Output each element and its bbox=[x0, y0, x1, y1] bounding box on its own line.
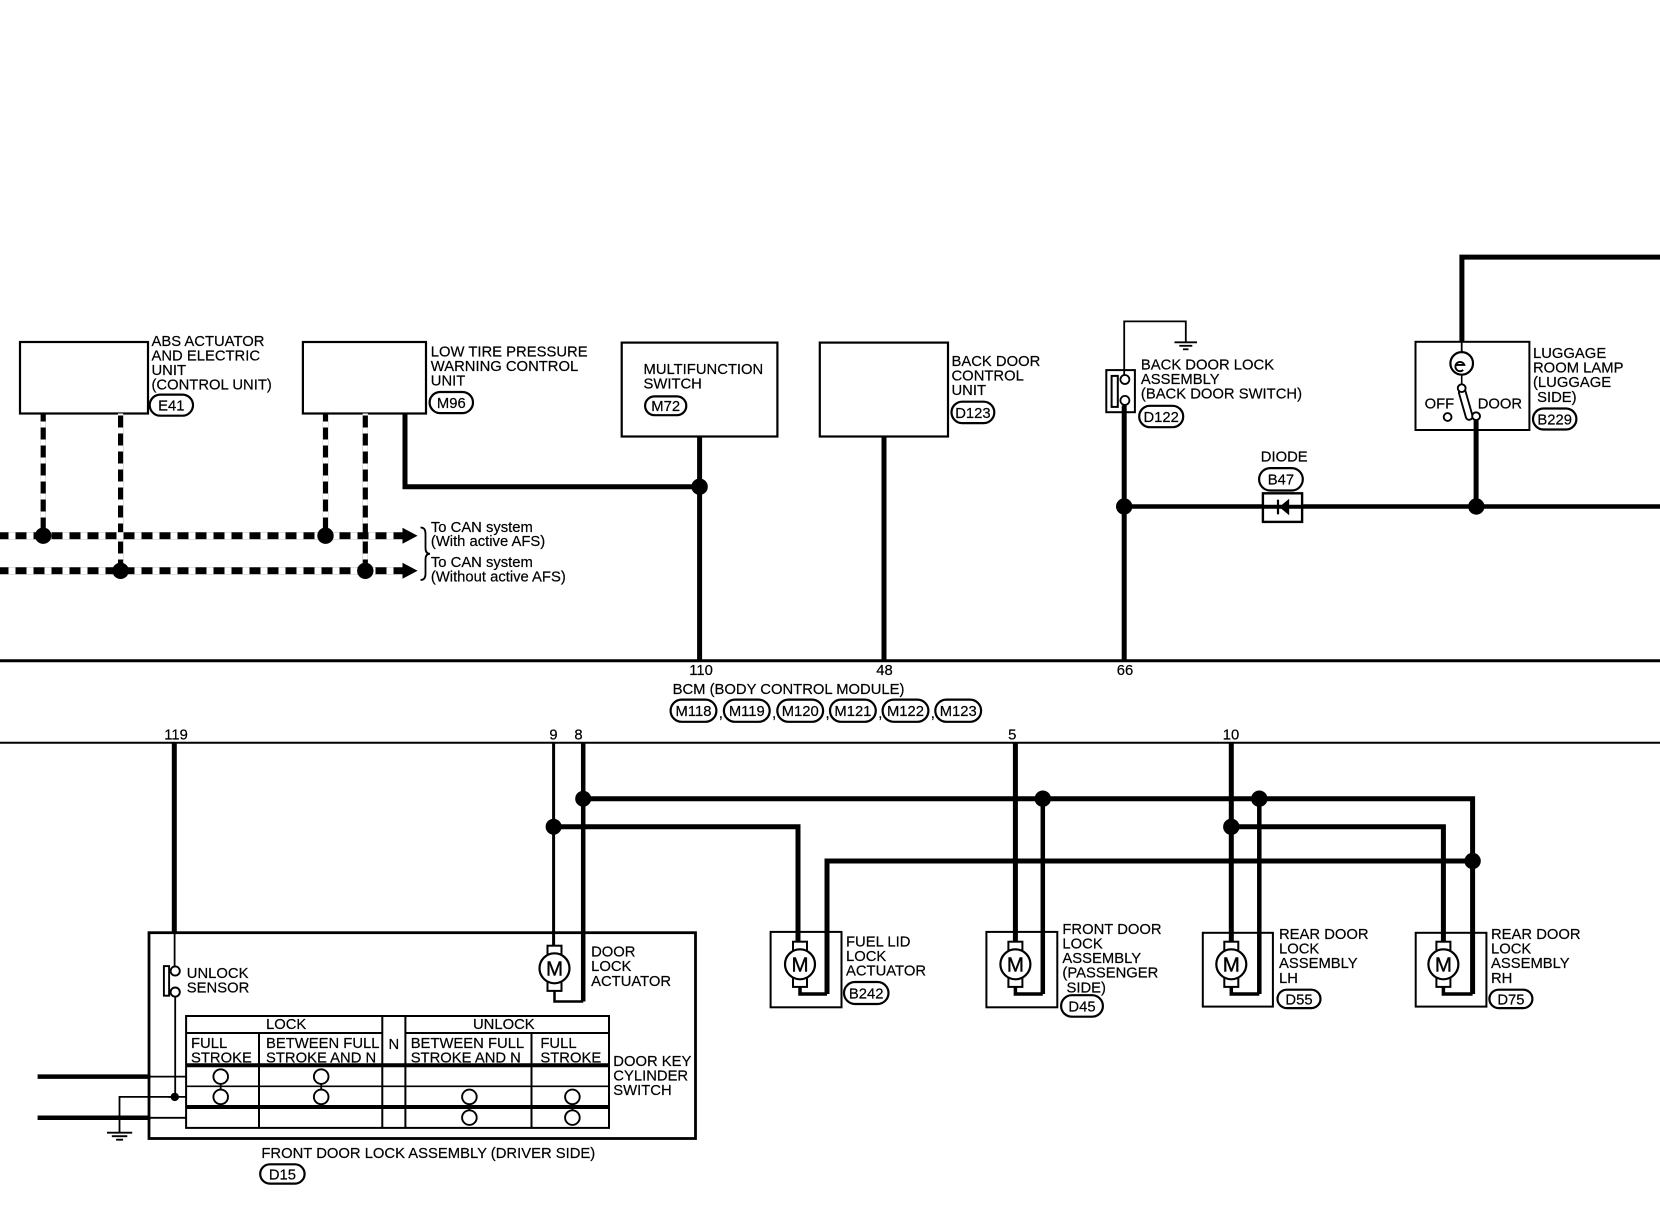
switch contacts lock between-full-stroke-and-N bbox=[314, 1069, 329, 1104]
svg-text:8: 8 bbox=[574, 728, 582, 744]
svg-text:M96: M96 bbox=[437, 396, 466, 412]
comma separator bbox=[878, 706, 882, 722]
connector oval E41 bbox=[150, 395, 193, 416]
motor B242 (fuel lid lock actuator) bbox=[785, 942, 815, 987]
wire BCM pin 119 to unlock sensor bbox=[172, 742, 177, 933]
svg-text:FULL: FULL bbox=[540, 1036, 576, 1052]
svg-text:ASSEMBLY: ASSEMBLY bbox=[1062, 951, 1141, 967]
motor door lock actuator (driver) bbox=[540, 946, 570, 991]
label D75 (rear door lock assembly RH) bbox=[1491, 927, 1581, 987]
svg-text:M: M bbox=[1007, 954, 1024, 977]
wire pin119 to unlock sensor (inside box) bbox=[174, 933, 176, 967]
wire M72 to BCM pin 110 bbox=[697, 437, 702, 661]
svg-text:WARNING CONTROL: WARNING CONTROL bbox=[431, 359, 578, 375]
svg-text:M123: M123 bbox=[940, 704, 977, 720]
svg-text:SIDE): SIDE) bbox=[1537, 390, 1577, 406]
junction E41 pin2 / CAN bus 2 bbox=[112, 563, 128, 579]
junction return bus / lock bus elbow bbox=[1464, 853, 1480, 869]
header label UNLOCK bbox=[473, 1017, 535, 1033]
svg-text:110: 110 bbox=[689, 663, 713, 679]
motor D75 (rear door lock assembly RH) bbox=[1428, 942, 1458, 987]
wire unlock row (external) bbox=[38, 1116, 151, 1121]
svg-text:LOCK: LOCK bbox=[1062, 937, 1102, 953]
BCM upper bus line bbox=[0, 659, 1660, 662]
svg-text:FRONT DOOR LOCK ASSEMBLY (DRIV: FRONT DOOR LOCK ASSEMBLY (DRIVER SIDE) bbox=[261, 1146, 595, 1162]
svg-text:CONTROL: CONTROL bbox=[952, 369, 1024, 385]
CAN bus line 1 (with active AFS) bbox=[0, 532, 403, 539]
svg-text:M119: M119 bbox=[729, 704, 765, 720]
junction lock bus / D55 branch bbox=[1251, 791, 1267, 807]
label BCM (BODY CONTROL MODULE) bbox=[673, 682, 905, 698]
svg-text:M72: M72 bbox=[651, 399, 680, 415]
wire common junction to ground bbox=[120, 1097, 175, 1133]
wire junction66 to diode bbox=[1124, 504, 1263, 509]
connector oval M72 bbox=[645, 396, 686, 415]
node label: To CAN system (With active AFS) bbox=[431, 520, 545, 550]
svg-text:OFF: OFF bbox=[1425, 397, 1455, 413]
connector oval M123 bbox=[935, 700, 981, 722]
connector oval D15 bbox=[260, 1164, 304, 1183]
lamp switch lever bbox=[1458, 388, 1473, 420]
svg-text:LOCK: LOCK bbox=[591, 959, 631, 975]
label M96: LOW TIRE PRESSURE WARNING CONTROL UNIT bbox=[431, 345, 588, 390]
svg-text:UNIT: UNIT bbox=[152, 363, 187, 379]
lamp switch OFF contact bbox=[1444, 413, 1452, 421]
motor D45 (front door lock assembly passenger side) bbox=[1000, 942, 1030, 987]
actuator box B242 (fuel lid lock actuator) bbox=[771, 932, 842, 1007]
junction M96 pin2 / CAN bus 2 bbox=[357, 563, 373, 579]
junction lock bus / D45 branch bbox=[1035, 791, 1051, 807]
connector oval D45 bbox=[1061, 995, 1103, 1017]
svg-text:66: 66 bbox=[1117, 663, 1133, 679]
wire diode to lamp junction bbox=[1302, 504, 1476, 509]
connector oval M120 bbox=[777, 700, 823, 722]
wire M96 pin2 (CAN-L shielded) bbox=[363, 414, 368, 569]
control unit box D123 (back door control unit) bbox=[820, 343, 948, 437]
svg-text:,: , bbox=[826, 706, 830, 722]
svg-text:(With active AFS): (With active AFS) bbox=[431, 534, 545, 550]
pin number 119 bbox=[164, 728, 188, 744]
svg-text:48: 48 bbox=[876, 663, 892, 679]
control unit box M96 (low tire pressure warning control unit) bbox=[303, 342, 426, 414]
switch contacts unlock full-stroke bbox=[565, 1090, 580, 1125]
switch contacts lock full-stroke bbox=[213, 1069, 228, 1104]
svg-text:REAR DOOR: REAR DOOR bbox=[1491, 927, 1581, 943]
wire D123 to BCM pin 48 bbox=[882, 437, 887, 661]
svg-text:UNLOCK: UNLOCK bbox=[187, 966, 249, 982]
pin number 66 bbox=[1117, 663, 1133, 679]
label DOOR LOCK ACTUATOR bbox=[591, 945, 671, 990]
wire BCM pin 10 to D55 motor bbox=[1229, 742, 1234, 944]
svg-text:STROKE AND N: STROKE AND N bbox=[411, 1051, 521, 1067]
motor D45 (front door lock assembly passenger side) loop wire bbox=[1015, 988, 1042, 995]
svg-text:D75: D75 bbox=[1497, 992, 1524, 1008]
svg-text:FRONT DOOR: FRONT DOOR bbox=[1062, 922, 1161, 938]
svg-text:M: M bbox=[1435, 954, 1452, 977]
svg-text:SENSOR: SENSOR bbox=[187, 980, 250, 996]
wire junction to right edge bbox=[1476, 504, 1660, 509]
svg-text:DOOR: DOOR bbox=[1478, 397, 1522, 413]
switch D122 contact bottom bbox=[1120, 396, 1129, 405]
svg-text:(Without active AFS): (Without active AFS) bbox=[431, 570, 566, 586]
label DOOR bbox=[1478, 397, 1522, 413]
svg-text:STROKE: STROKE bbox=[540, 1051, 601, 1067]
label B229: LUGGAGE ROOM LAMP (LUGGAGE SIDE) bbox=[1533, 346, 1624, 406]
svg-text:REAR DOOR: REAR DOOR bbox=[1279, 927, 1369, 943]
header BETWEEN FULL STROKE AND N (lock) bbox=[266, 1036, 379, 1067]
connector oval D123 bbox=[952, 402, 995, 423]
svg-text:LOCK: LOCK bbox=[846, 949, 886, 965]
svg-text:D45: D45 bbox=[1068, 999, 1095, 1015]
wire E41 pin1 (CAN-H shielded) bbox=[41, 414, 46, 534]
svg-text:M121: M121 bbox=[834, 704, 871, 720]
svg-text:(CONTROL UNIT): (CONTROL UNIT) bbox=[152, 378, 272, 394]
svg-text:LOCK: LOCK bbox=[1279, 942, 1319, 958]
header label LOCK bbox=[266, 1017, 306, 1033]
svg-text:AND ELECTRIC: AND ELECTRIC bbox=[152, 348, 261, 364]
ground symbol (back door switch) bbox=[1175, 342, 1198, 349]
pin number 10 bbox=[1223, 728, 1239, 744]
svg-text:MULTIFUNCTION: MULTIFUNCTION bbox=[644, 362, 764, 378]
wire D122 to BCM pin 66 bbox=[1122, 406, 1127, 661]
junction M96-wire / M72-wire bbox=[691, 479, 707, 495]
label FRONT DOOR LOCK ASSEMBLY (DRIVER SIDE) bbox=[261, 1146, 595, 1162]
wire E41 pin2 (CAN-L shielded) bbox=[118, 414, 123, 569]
junction pin10 wire / unlock bus B bbox=[1223, 819, 1239, 835]
junction lamp wire / diode wire bbox=[1468, 498, 1484, 514]
connector oval M118 bbox=[671, 700, 717, 722]
wire lock bus to D55 loop bbox=[1257, 799, 1262, 994]
lamp switch DOOR contact bbox=[1472, 412, 1480, 420]
label DIODE bbox=[1261, 450, 1308, 466]
connector oval M121 bbox=[830, 700, 876, 722]
label D123: BACK DOOR CONTROL UNIT bbox=[952, 354, 1041, 399]
wire M96 to BCM pin 110 bbox=[405, 414, 700, 487]
wire unlock row (inside box) bbox=[150, 1117, 186, 1119]
label UNLOCK SENSOR bbox=[187, 966, 250, 997]
svg-text:ASSEMBLY: ASSEMBLY bbox=[1279, 956, 1358, 972]
svg-text:BACK DOOR: BACK DOOR bbox=[952, 354, 1041, 370]
svg-text:DIODE: DIODE bbox=[1261, 450, 1308, 466]
svg-text:119: 119 bbox=[164, 728, 188, 744]
switch D122 box bbox=[1106, 370, 1135, 412]
wire unlock sensor to common junction bbox=[174, 997, 176, 1097]
door key cylinder switch table frame bbox=[186, 1016, 609, 1128]
connector oval M96 bbox=[430, 392, 473, 413]
svg-text:(LUGGAGE: (LUGGAGE bbox=[1533, 375, 1611, 391]
svg-text:ASSEMBLY: ASSEMBLY bbox=[1491, 956, 1570, 972]
wire lock row (external) bbox=[38, 1074, 151, 1079]
comma separator bbox=[772, 706, 776, 722]
svg-text:M: M bbox=[791, 954, 808, 977]
svg-text:M122: M122 bbox=[887, 704, 924, 720]
wire BCM pin 9 to door lock actuator bbox=[552, 742, 555, 946]
actuator loop wire bbox=[555, 991, 584, 1001]
arrow CAN bus 2 bbox=[403, 563, 418, 579]
connector oval M122 bbox=[883, 700, 929, 722]
svg-text:SWITCH: SWITCH bbox=[644, 377, 702, 393]
svg-text:ACTUATOR: ACTUATOR bbox=[846, 964, 926, 980]
svg-text:FULL: FULL bbox=[191, 1036, 227, 1052]
svg-text:ACTUATOR: ACTUATOR bbox=[591, 974, 671, 990]
label M72: MULTIFUNCTION SWITCH bbox=[644, 362, 764, 393]
control unit box E41 (ABS actuator and electric unit) bbox=[20, 342, 148, 414]
svg-text:DOOR KEY: DOOR KEY bbox=[613, 1054, 691, 1070]
comma separator bbox=[719, 706, 723, 722]
return bus wire (fuel lid loop to D75 loop) bbox=[827, 861, 1473, 994]
lock bus wire (pin 8 branch) bbox=[583, 799, 1472, 994]
connector oval D122 bbox=[1139, 406, 1183, 427]
svg-text:ASSEMBLY: ASSEMBLY bbox=[1141, 372, 1220, 388]
wire battery feed to lamp (top right) bbox=[1462, 257, 1660, 342]
svg-text:DOOR: DOOR bbox=[591, 945, 635, 961]
label E41: ABS ACTUATOR AND ELECTRIC UNIT (CONTROL UNIT) bbox=[152, 334, 272, 394]
assembly box D15 (front door lock assembly driver side) bbox=[149, 933, 696, 1139]
svg-text:B47: B47 bbox=[1268, 473, 1294, 489]
CAN bus line 2 (without active AFS) bbox=[0, 567, 403, 574]
header label N bbox=[388, 1037, 399, 1053]
svg-text:M: M bbox=[1223, 954, 1240, 977]
junction E41 pin1 / CAN bus 1 bbox=[35, 528, 51, 544]
node label: To CAN system (Without active AFS) bbox=[431, 555, 566, 585]
svg-text:M120: M120 bbox=[782, 704, 819, 720]
label D55 (rear door lock assembly LH) bbox=[1279, 927, 1369, 987]
svg-text:9: 9 bbox=[549, 728, 557, 744]
junction pin8 wire / lock bus bbox=[575, 791, 591, 807]
svg-text:D122: D122 bbox=[1144, 410, 1179, 426]
wire D122 switch to ground bbox=[1124, 321, 1186, 376]
svg-text:,: , bbox=[719, 706, 723, 722]
connector oval D75 bbox=[1489, 990, 1532, 1009]
svg-text:SIDE): SIDE) bbox=[1067, 980, 1107, 996]
connector oval D55 bbox=[1278, 990, 1321, 1009]
connector oval B242 bbox=[844, 982, 889, 1004]
svg-text:STROKE AND N: STROKE AND N bbox=[266, 1051, 376, 1067]
arrow CAN bus 1 bbox=[403, 528, 418, 544]
svg-text:LOW TIRE PRESSURE: LOW TIRE PRESSURE bbox=[431, 345, 588, 361]
svg-text:RH: RH bbox=[1491, 971, 1512, 987]
switch box M72 (multifunction switch) bbox=[622, 343, 778, 437]
svg-text:B229: B229 bbox=[1537, 412, 1572, 428]
diode B47 symbol bbox=[1263, 493, 1302, 522]
svg-text:UNLOCK: UNLOCK bbox=[473, 1017, 535, 1033]
wire lock row (inside box) bbox=[150, 1076, 186, 1078]
BCM lower bus line bbox=[0, 742, 1660, 744]
svg-text:E41: E41 bbox=[158, 399, 184, 415]
svg-text:,: , bbox=[878, 706, 882, 722]
svg-text:5: 5 bbox=[1008, 728, 1016, 744]
label B242 (fuel lid lock actuator) bbox=[846, 935, 926, 980]
pin number 8 bbox=[574, 728, 582, 744]
actuator box D45 (front door lock assembly passenger side) bbox=[986, 932, 1057, 1007]
wire common junction to table row B bbox=[168, 1096, 186, 1098]
motor D75 (rear door lock assembly RH) loop wire bbox=[1443, 988, 1472, 995]
junction pin9 wire / fuel lid branch bbox=[546, 819, 562, 835]
svg-text:ROOM LAMP: ROOM LAMP bbox=[1533, 361, 1624, 377]
switch D122 plunger bar bbox=[1112, 376, 1118, 407]
svg-text:BCM (BODY CONTROL MODULE): BCM (BODY CONTROL MODULE) bbox=[673, 682, 905, 698]
actuator box D55 (rear door lock assembly LH) bbox=[1203, 933, 1273, 1007]
svg-text:STROKE: STROKE bbox=[191, 1051, 252, 1067]
svg-text:(PASSENGER: (PASSENGER bbox=[1062, 966, 1158, 982]
wire BCM pin 5 to D45 motor bbox=[1013, 742, 1018, 944]
svg-text:10: 10 bbox=[1223, 728, 1239, 744]
comma separator bbox=[931, 706, 935, 722]
comma separator bbox=[826, 706, 830, 722]
header BETWEEN FULL STROKE AND N (unlock) bbox=[411, 1036, 524, 1067]
connector oval B229 bbox=[1533, 409, 1576, 430]
motor B242 (fuel lid lock actuator) loop wire bbox=[800, 988, 827, 995]
svg-text:,: , bbox=[772, 706, 776, 722]
header FULL STROKE (unlock) bbox=[540, 1036, 601, 1067]
svg-text:SWITCH: SWITCH bbox=[613, 1083, 671, 1099]
unlock bus wire A (pin 9 branch to fuel lid) bbox=[554, 827, 798, 944]
svg-text:LH: LH bbox=[1279, 971, 1298, 987]
label D122: BACK DOOR LOCK ASSEMBLY (BACK DOOR SWITCH) bbox=[1141, 357, 1302, 402]
connector oval M119 bbox=[724, 700, 770, 722]
svg-text:,: , bbox=[931, 706, 935, 722]
label DOOR KEY CYLINDER SWITCH bbox=[613, 1054, 691, 1099]
lamp bulb symbol bbox=[1450, 342, 1473, 385]
svg-text:ABS ACTUATOR: ABS ACTUATOR bbox=[152, 334, 265, 350]
svg-text:M: M bbox=[546, 958, 563, 981]
unlock sensor symbol bbox=[164, 966, 180, 997]
unlock bus wire B (pin 10 branch to D75) bbox=[1231, 827, 1443, 944]
actuator box D75 (rear door lock assembly RH) bbox=[1416, 933, 1487, 1007]
lamp box B229 (luggage room lamp) bbox=[1416, 342, 1530, 430]
switch D122 contact top bbox=[1120, 375, 1129, 384]
wire lock bus to D45 loop bbox=[1041, 799, 1046, 994]
svg-text:D123: D123 bbox=[955, 406, 990, 422]
svg-text:D15: D15 bbox=[269, 1167, 296, 1183]
svg-text:BETWEEN FULL: BETWEEN FULL bbox=[266, 1036, 379, 1052]
pin number 48 bbox=[876, 663, 892, 679]
junction M96 pin1 / CAN bus 1 bbox=[317, 528, 333, 544]
svg-text:LUGGAGE: LUGGAGE bbox=[1533, 346, 1606, 362]
svg-text:LOCK: LOCK bbox=[266, 1017, 306, 1033]
svg-text:D55: D55 bbox=[1285, 992, 1312, 1008]
svg-text:(BACK DOOR SWITCH): (BACK DOOR SWITCH) bbox=[1141, 387, 1302, 403]
svg-text:BETWEEN FULL: BETWEEN FULL bbox=[411, 1036, 524, 1052]
junction D122 wire / diode wire bbox=[1116, 498, 1132, 514]
junction sensor / switch common / ground bbox=[171, 1093, 179, 1101]
motor D55 (rear door lock assembly LH) bbox=[1216, 942, 1246, 987]
svg-text:FUEL LID: FUEL LID bbox=[846, 935, 910, 951]
svg-text:N: N bbox=[388, 1037, 399, 1053]
wire M96 pin1 (CAN-H shielded) bbox=[323, 414, 328, 534]
svg-text:M118: M118 bbox=[676, 704, 712, 720]
svg-text:CYLINDER: CYLINDER bbox=[613, 1069, 688, 1085]
connector oval B47 bbox=[1259, 468, 1303, 490]
svg-text:BACK DOOR LOCK: BACK DOOR LOCK bbox=[1141, 357, 1274, 373]
brace for CAN system labels bbox=[421, 528, 431, 581]
wire BCM pin 8 to actuator loop bbox=[581, 742, 586, 1002]
pin number 5 bbox=[1008, 728, 1016, 744]
svg-text:UNIT: UNIT bbox=[952, 383, 987, 399]
motor D55 (rear door lock assembly LH) loop wire bbox=[1231, 988, 1259, 995]
ground symbol (door key cylinder switch) bbox=[107, 1133, 132, 1140]
wire lamp DOOR contact to junction bbox=[1474, 420, 1479, 507]
svg-text:UNIT: UNIT bbox=[431, 374, 466, 390]
pin number 9 bbox=[549, 728, 557, 744]
svg-text:LOCK: LOCK bbox=[1491, 942, 1531, 958]
pin number 110 bbox=[689, 663, 713, 679]
svg-text:B242: B242 bbox=[849, 986, 884, 1002]
switch contacts unlock between-full-stroke-and-N bbox=[462, 1090, 477, 1125]
label OFF bbox=[1425, 397, 1455, 413]
header FULL STROKE (lock) bbox=[191, 1036, 252, 1067]
label D45 (front door lock assembly passenger side) bbox=[1062, 922, 1161, 996]
